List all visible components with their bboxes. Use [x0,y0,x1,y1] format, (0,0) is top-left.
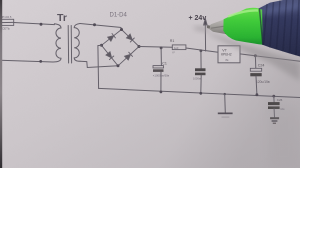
wire: R1 to regulator [186,48,218,52]
pen metal/green seam [224,19,227,34]
node: bottom-left junction dot [39,60,42,63]
regulator U1 KREN [218,46,240,63]
node: C2 top junction [200,49,203,52]
node: C1 bottom junction [160,91,163,94]
diode D3 (left-bottom edge) [102,45,119,66]
wire: fuse to transformer primary top [14,23,55,25]
ground symbol (C25) [270,109,279,124]
bridge rectifier D1-D4 label [110,13,128,19]
node: C24 bottom junction [256,93,259,96]
wire: secondary bottom to bridge bottom vertex [80,61,118,67]
wire: ground rail [99,88,301,97]
pen green cone [223,8,263,45]
node: secondary top dot [93,23,96,26]
node: C25 junction [272,95,275,98]
wire: bottom-left to transformer primary bottom [0,60,53,62]
node: C2 bottom junction [199,92,202,95]
node: ground stub junction [224,93,226,95]
node: C24 top junction [254,54,257,57]
pen tip cast shadow [193,27,210,32]
pen green/navy seam [260,9,263,45]
transformer Tr label [57,12,67,24]
node: bridge top vertex [120,28,123,31]
fuse label [1,15,12,30]
wire: bridge minus to ground rail [98,45,102,88]
node: bridge left vertex [100,44,103,47]
capacitor C24 [250,56,261,95]
transformer Tr primary winding [53,24,61,62]
capacitor C2 [195,51,206,94]
pen navy body [258,0,300,57]
paper background [0,0,300,168]
node: bridge bottom vertex [117,64,120,67]
resistor R1 [172,45,186,50]
capacitor C25 [268,96,280,109]
+24v arrow [204,19,208,52]
left photo edge [0,0,2,168]
fuse F1 [0,19,14,25]
pen metal tip [207,19,227,34]
node: C1 top junction [160,47,163,50]
diode D2 (top-right edge) [122,30,140,47]
transformer core [67,26,69,64]
transformer Tr secondary winding [74,24,80,62]
pen grip ridges [264,0,300,55]
wire: bridge plus to R1 [139,46,172,49]
wire: regulator output [240,54,300,61]
diode D1 (left-top edge) [102,30,122,46]
diode D4 (bottom-right edge) [118,47,139,66]
photo grain [0,0,1,1]
capacitor C1 [153,48,164,92]
wire: secondary top to bridge top vertex [80,24,122,30]
node: top-left junction dot [40,23,43,26]
pen shadow [206,32,300,82]
node: bridge right vertex [138,45,141,48]
ground symbol (main) [218,94,233,118]
